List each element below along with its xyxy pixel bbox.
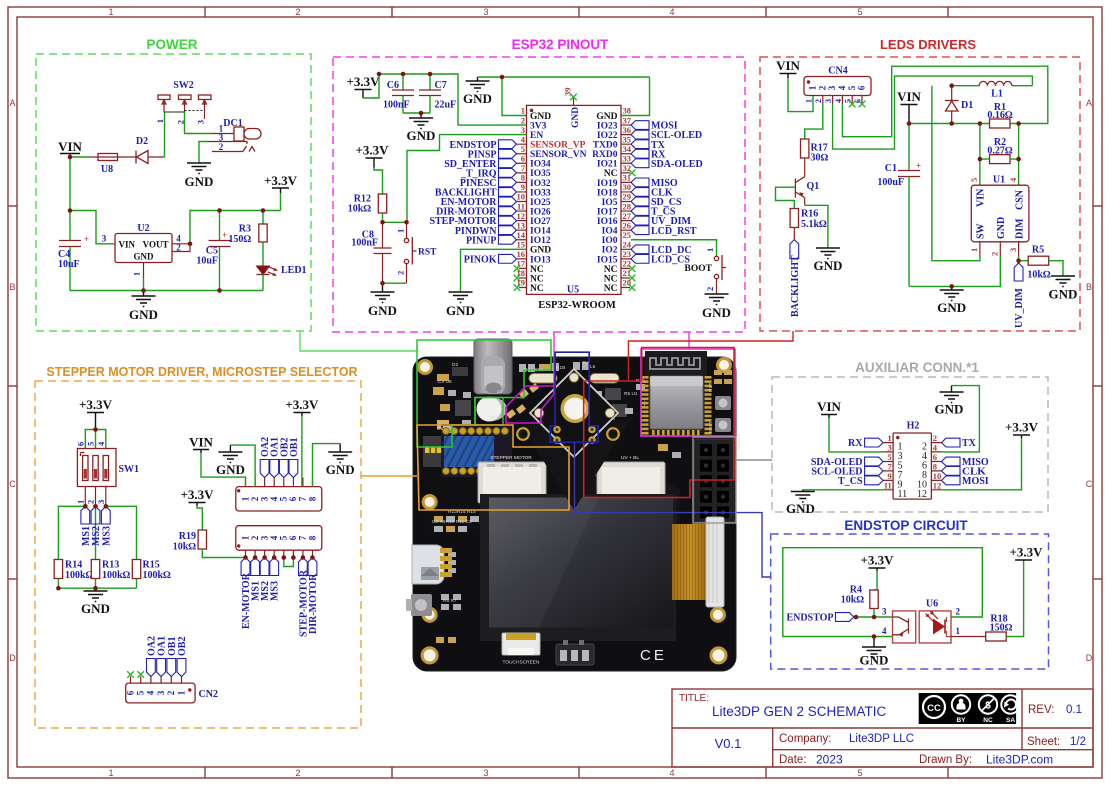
wire +3.3V to R4: [874, 571, 877, 590]
svg-text:2: 2: [250, 535, 260, 540]
wire VIN to header pin1: [201, 453, 246, 487]
svg-text:UV_DIM: UV_DIM: [1014, 287, 1025, 328]
svg-text:14: 14: [517, 230, 526, 240]
svg-text:NC: NC: [604, 274, 618, 284]
svg-text:IO22: IO22: [597, 131, 618, 141]
svg-text:R3: R3: [239, 224, 251, 235]
svg-text:DIM: DIM: [1014, 218, 1025, 239]
svg-text:U1: U1: [993, 175, 1005, 186]
svg-text:+: +: [916, 161, 921, 171]
svg-text:IO21: IO21: [597, 160, 618, 170]
svg-text:PINOK: PINOK: [464, 254, 497, 265]
svg-text:35: 35: [623, 134, 632, 144]
svg-text:1: 1: [804, 99, 813, 103]
junction dots ENDSTOP: [854, 615, 877, 639]
svg-text:NC: NC: [530, 274, 544, 284]
wire +3.3V to H2 pin12: [942, 438, 1022, 490]
callout outline stepper mount (navy): [550, 352, 770, 577]
svg-text:11: 11: [884, 480, 892, 490]
net label PINESC: [460, 178, 517, 189]
svg-text:5: 5: [86, 442, 96, 446]
svg-text:ESP32 PINOUT: ESP32 PINOUT: [512, 37, 610, 52]
wire VIN rail: [909, 123, 1019, 125]
wire D2 to SW2 pin1: [164, 112, 166, 157]
net label LCD_DC: [631, 245, 692, 256]
svg-text:1: 1: [240, 535, 250, 540]
svg-text:VIN: VIN: [189, 435, 213, 450]
net label RX (H2): [848, 438, 883, 449]
wire EN pin3 to reset circuit: [407, 135, 527, 223]
svg-text:IO35: IO35: [530, 169, 551, 179]
svg-text:SDA-OLED: SDA-OLED: [651, 159, 703, 170]
svg-text:+3.3V: +3.3V: [355, 143, 389, 158]
svg-text:D1: D1: [961, 100, 973, 111]
resistor R13: [91, 560, 130, 589]
power flag +3.3V (R4): [860, 553, 894, 572]
svg-text:C5: C5: [437, 426, 443, 432]
wire CN4 pin3 to LED return: [833, 76, 1033, 149]
svg-text:12: 12: [517, 211, 526, 221]
net label OA2 (CN2): [146, 636, 157, 677]
svg-text:25: 25: [623, 230, 632, 240]
svg-text:D2: D2: [452, 362, 458, 368]
svg-text:100nF: 100nF: [383, 100, 410, 111]
PCB SMD components top-left: [433, 362, 681, 643]
svg-text:3: 3: [483, 7, 488, 17]
svg-text:150Ω: 150Ω: [990, 623, 1013, 634]
svg-text:IO13: IO13: [530, 255, 551, 265]
svg-text:GND: GND: [530, 246, 551, 256]
svg-text:GND: GND: [571, 107, 581, 128]
svg-text:GND: GND: [446, 303, 475, 318]
svg-text:GND: GND: [81, 601, 110, 616]
push button BOOT: [685, 248, 726, 294]
wire U1 SW to inductor node: [932, 86, 980, 261]
net label RX: [631, 149, 666, 160]
svg-text:+3.3V: +3.3V: [79, 397, 113, 412]
svg-text:NC: NC: [983, 717, 993, 724]
wire ENDSTOP to U6 pin3: [854, 616, 893, 618]
svg-text:3: 3: [483, 768, 488, 778]
svg-text:24: 24: [623, 240, 632, 250]
svg-text:NC: NC: [604, 284, 618, 294]
svg-text:IO17: IO17: [597, 207, 618, 217]
svg-text:SA: SA: [1006, 717, 1015, 724]
PCB STEPPER MOTOR connector: [478, 455, 546, 505]
STEPPER MOTOR DRIVER section dashed box: [35, 381, 361, 728]
svg-text:37: 37: [623, 115, 632, 125]
svg-text:28: 28: [623, 201, 632, 211]
svg-text:BACKLIGHT: BACKLIGHT: [790, 255, 801, 317]
PCB stepper mount plate: [517, 369, 630, 510]
svg-text:100nF: 100nF: [351, 238, 378, 249]
svg-text:5: 5: [847, 85, 857, 90]
svg-text:SENSOR_VP: SENSOR_VP: [530, 141, 586, 151]
svg-text:GND: GND: [216, 462, 245, 477]
svg-text:IO23: IO23: [597, 121, 618, 131]
ground Q1: [813, 248, 842, 273]
wire +3.3V to rail: [363, 74, 379, 98]
svg-text:+3.3V: +3.3V: [1009, 545, 1043, 560]
net label BACKLIGHT: [790, 240, 801, 317]
PCB slots: [529, 374, 619, 384]
svg-text:3: 3: [196, 120, 206, 124]
svg-text:2: 2: [396, 271, 406, 275]
svg-text:2023: 2023: [816, 753, 843, 767]
svg-text:Lite3DP LLC: Lite3DP LLC: [849, 733, 914, 745]
power flag +3.3V (header pin7): [285, 397, 319, 416]
svg-text:BY: BY: [956, 717, 966, 724]
net label STEP-MOTOR (lower header): [298, 558, 309, 638]
creative commons badge: [919, 693, 1020, 724]
wire VIN to CN4 pin1: [788, 78, 813, 112]
svg-text:C: C: [1086, 479, 1093, 489]
svg-text:TITLE:: TITLE:: [679, 693, 709, 704]
svg-text:IO26: IO26: [530, 207, 551, 217]
svg-text:1: 1: [969, 248, 979, 252]
capacitor C6: [383, 74, 414, 113]
svg-text:CSN: CSN: [1014, 189, 1025, 210]
svg-text:6: 6: [76, 442, 86, 446]
svg-text:IO14: IO14: [530, 227, 551, 237]
PCB silkscreen labels: [432, 360, 741, 604]
AUXILIAR CONN section title: [855, 360, 979, 375]
svg-text:VIN: VIN: [58, 139, 82, 154]
svg-text:U6: U6: [926, 599, 938, 610]
svg-text:4: 4: [269, 535, 279, 540]
power flag +3.3V (R19): [180, 487, 214, 506]
net label LCD_RST: [631, 226, 697, 237]
no-connect marks U5: [514, 170, 636, 291]
capacitor C8: [351, 222, 391, 283]
power flag VIN (driver): [897, 89, 921, 124]
svg-text:MS3: MS3: [270, 581, 281, 601]
net label OA1 (CN2): [157, 636, 168, 677]
svg-text:RX: RX: [848, 438, 863, 449]
svg-text:10kΩ: 10kΩ: [841, 595, 865, 606]
svg-text:2: 2: [956, 607, 961, 617]
net label MOSI: [631, 121, 678, 132]
svg-text:3: 3: [259, 535, 269, 540]
net label DIR-MOTOR: [436, 207, 516, 218]
net label UV_DIM: [1014, 261, 1025, 328]
PCB barrel jack: [474, 339, 512, 394]
solder jumper SW2: [155, 80, 211, 124]
wire R18 to +3.3V: [1006, 560, 1023, 637]
AUXILIAR CONN section dashed box: [772, 377, 1048, 512]
svg-text:4: 4: [882, 626, 887, 636]
power flag VIN (CN4): [776, 58, 800, 78]
net label PINSP: [468, 149, 517, 160]
svg-text:23: 23: [623, 249, 632, 259]
svg-text:U5: U5: [567, 285, 579, 296]
net label SCL-OLED (H2): [811, 466, 883, 477]
svg-text:4: 4: [269, 496, 279, 501]
net label MS1 (SW1): [81, 506, 92, 546]
svg-text:ENDSTOP CIRCUIT: ENDSTOP CIRCUIT: [844, 518, 968, 533]
net label TX: [631, 140, 666, 151]
svg-text:3: 3: [259, 496, 269, 501]
net label OB1 (header): [289, 438, 300, 478]
net label SDA-OLED: [631, 159, 703, 170]
pin 39 GND no-connect: [563, 88, 582, 129]
callout line esp32 box to C6 C7 region (magenta): [506, 332, 554, 423]
net label MISO (H2): [942, 457, 989, 468]
callout outline esp32 module (magenta): [641, 332, 735, 436]
svg-text:VIN: VIN: [119, 240, 136, 250]
connector CN4: [804, 66, 871, 105]
net label MS1 (lower header): [251, 558, 262, 602]
svg-text:5: 5: [521, 144, 525, 154]
DIP switch SW1: [76, 441, 140, 506]
svg-text:10kΩ: 10kΩ: [1027, 270, 1051, 281]
svg-text:1: 1: [108, 768, 113, 778]
resistor R3: [228, 211, 267, 267]
svg-text:1: 1: [176, 690, 186, 695]
svg-text:V0.1: V0.1: [715, 736, 742, 751]
wire Q1 emitter to ground: [805, 205, 828, 248]
svg-text:VIN: VIN: [817, 399, 841, 414]
fuse U8: [89, 154, 127, 176]
title block TITLE text: [679, 693, 887, 719]
svg-text:AUXILIAR CONN.*1: AUXILIAR CONN.*1: [855, 360, 979, 375]
svg-text:RST: RST: [418, 248, 437, 258]
ground H2 bottom: [786, 490, 815, 516]
net label PINOK: [464, 254, 517, 265]
resistor R4: [841, 585, 878, 618]
net label MS2 (lower header): [260, 558, 271, 602]
push button RST: [396, 222, 438, 283]
ESP32 PINOUT section dashed box: [333, 57, 745, 332]
svg-text:3: 3: [521, 125, 525, 135]
svg-text:2: 2: [250, 496, 260, 501]
connector CN2: [125, 677, 218, 703]
svg-text:27: 27: [623, 211, 632, 221]
svg-text:10: 10: [517, 192, 526, 202]
POWER section title: [146, 37, 197, 52]
transistor Q1: [795, 177, 819, 206]
svg-text:STEPPER MOTOR DRIVER, MICROSTE: STEPPER MOTOR DRIVER, MICROSTEP SELECTOR: [46, 365, 357, 379]
svg-text:IO27: IO27: [530, 217, 551, 227]
svg-text:Sheet:: Sheet:: [1027, 736, 1060, 748]
svg-text:C6: C6: [489, 415, 495, 421]
net label TX (H2): [942, 438, 977, 449]
svg-text:RST: RST: [708, 382, 714, 392]
svg-text:UV + BL: UV + BL: [621, 455, 639, 461]
title block frame: [672, 689, 1093, 767]
svg-text:EN: EN: [530, 131, 543, 141]
svg-text:C: C: [9, 479, 16, 489]
wire U2 VOUT to 3.3V rail: [190, 211, 281, 244]
svg-text:IO2: IO2: [602, 246, 618, 256]
resistor R15: [132, 560, 171, 589]
resistor R14: [54, 560, 93, 589]
svg-text:5: 5: [857, 7, 862, 17]
svg-text:3: 3: [96, 500, 106, 504]
svg-text:6: 6: [288, 535, 298, 540]
net label ENDSTOP: [786, 613, 853, 624]
svg-text:L5: L5: [590, 364, 596, 370]
svg-text:3: 3: [827, 85, 837, 90]
net label BACKLIGHT: [435, 188, 517, 199]
resistor R1: [987, 102, 1013, 128]
junction dots POWER: [68, 155, 266, 293]
svg-text:7: 7: [298, 535, 308, 540]
wire H2 pin11 to ground: [803, 489, 883, 491]
net label MS2 (SW1): [91, 506, 102, 546]
svg-text:30: 30: [623, 182, 632, 192]
ground DC1: [185, 163, 214, 189]
PCB mounting holes: [419, 359, 731, 663]
svg-text:LEDS DRIVERS: LEDS DRIVERS: [880, 37, 976, 52]
svg-text:2: 2: [86, 500, 96, 504]
resistor R17: [801, 139, 829, 177]
svg-text:VIN: VIN: [776, 58, 800, 73]
svg-text:1: 1: [132, 272, 142, 276]
svg-text:H2: H2: [907, 421, 920, 432]
svg-text:CN2: CN2: [199, 689, 218, 700]
svg-text:NC: NC: [604, 265, 618, 275]
net label T_CS (H2): [838, 476, 883, 487]
power flag VIN (header): [189, 435, 213, 454]
capacitor C4: [58, 211, 89, 291]
svg-text:+3.3V: +3.3V: [860, 553, 894, 568]
net label CLK: [631, 188, 673, 199]
svg-text:OB2: OB2: [177, 637, 188, 656]
svg-text:R14: R14: [65, 560, 82, 571]
svg-text:CC: CC: [927, 703, 941, 714]
svg-text:+: +: [222, 230, 227, 240]
PCB heatsink: [441, 424, 512, 477]
svg-text:R16: R16: [801, 209, 818, 220]
net label EN-MOTOR: [441, 197, 517, 208]
svg-text:+3.3V: +3.3V: [1005, 420, 1039, 435]
svg-text:5: 5: [279, 496, 289, 501]
svg-text:1: 1: [521, 106, 525, 116]
wire RST to ground: [383, 282, 407, 284]
wire resistor ground rail: [58, 587, 136, 589]
ESP32 PINOUT section title: [512, 37, 610, 52]
svg-text:1: 1: [808, 85, 818, 90]
svg-text:NC: NC: [604, 169, 618, 179]
power flag +3.3V: [264, 173, 298, 211]
svg-text:1: 1: [155, 119, 165, 123]
wire Q1 base to R16: [776, 187, 796, 208]
title block company row: [779, 733, 1086, 748]
PCB ESP32 module: [645, 351, 707, 435]
ground BOOT: [702, 294, 731, 320]
capacitor C1: [877, 124, 921, 287]
wire +3.3V to R12: [374, 168, 383, 195]
svg-text:C6R9R2: C6R9R2: [736, 433, 741, 450]
svg-text:TOUCHSCREEN: TOUCHSCREEN: [503, 660, 540, 666]
ENDSTOP CIRCUIT section title: [844, 518, 968, 533]
capacitor C7: [419, 74, 456, 113]
svg-text:2: 2: [521, 115, 525, 125]
svg-text:1: 1: [396, 229, 406, 233]
wire SW1 pins to resistors: [58, 506, 136, 559]
svg-text:34: 34: [623, 144, 632, 154]
pin names U5: [530, 112, 618, 294]
power flag VIN (H2): [817, 399, 841, 418]
net label PINUP: [466, 235, 517, 246]
ENDSTOP CIRCUIT section dashed box: [771, 534, 1049, 669]
net label ENDSTOP: [449, 140, 516, 151]
svg-text:4: 4: [669, 7, 674, 17]
svg-text:NC: NC: [530, 284, 544, 294]
svg-text:R15: R15: [143, 560, 160, 571]
svg-text:ESP32-WROOM: ESP32-WROOM: [538, 300, 616, 311]
power flag VIN: [58, 139, 82, 157]
resistor R18: [986, 614, 1013, 642]
PCB microstep dip switch: [423, 436, 441, 467]
svg-text:T_CS: T_CS: [838, 476, 863, 487]
svg-text:1: 1: [76, 500, 86, 504]
wire VIN rail to U2 pin3: [70, 211, 115, 244]
PCB LCD panel: [480, 494, 676, 641]
wire header pin2 to ground: [230, 445, 255, 487]
svg-text:R6 R7: R6 R7: [443, 598, 457, 604]
svg-text:IO34: IO34: [530, 160, 551, 170]
ground H2 top: [935, 386, 964, 417]
svg-text:5: 5: [969, 178, 979, 182]
svg-text:2: 2: [166, 690, 176, 695]
svg-text:GND: GND: [786, 501, 815, 516]
svg-text:+3.3V: +3.3V: [346, 74, 380, 89]
net label MOSI (H2): [942, 476, 989, 487]
svg-text:29: 29: [623, 192, 632, 202]
svg-text:B: B: [1086, 282, 1092, 292]
svg-text:2: 2: [990, 252, 1000, 256]
svg-text:R1B: R1B: [556, 365, 565, 371]
PCB board: [413, 357, 736, 671]
ground SW1 resistors: [81, 588, 110, 616]
svg-text:GND: GND: [996, 217, 1007, 239]
wire power ground rail: [70, 290, 263, 292]
ground ENDSTOP: [860, 637, 889, 668]
svg-text:LCD_RST: LCD_RST: [651, 226, 697, 237]
svg-text:D2: D2: [136, 136, 148, 147]
svg-text:IO15: IO15: [597, 255, 618, 265]
net label _T_IRQ: [460, 168, 517, 179]
svg-text:DIR-MOTOR: DIR-MOTOR: [308, 573, 319, 634]
PCB auxiliary pin header: [694, 439, 736, 522]
svg-text:U8: U8: [101, 164, 113, 175]
svg-text:GND: GND: [860, 653, 889, 668]
title block REV: [1028, 704, 1082, 716]
PCB C6 C7 capacitors: [506, 383, 539, 419]
ground power rail: [129, 291, 158, 323]
svg-text:SW1: SW1: [119, 464, 140, 475]
wire sense network verticals: [980, 124, 1019, 186]
ground pin15: [446, 292, 475, 318]
wire POWER box to PCB callout: [300, 331, 417, 351]
svg-text:6: 6: [125, 690, 135, 695]
net label STEP-MOTOR: [429, 216, 516, 227]
ground R5: [1049, 276, 1078, 302]
PCB RST BOOT buttons: [714, 370, 732, 432]
svg-text:RXD0: RXD0: [592, 150, 618, 160]
wire H2 pin4 to ground: [942, 386, 980, 452]
svg-text:SENSOR_VN: SENSOR_VN: [530, 150, 587, 160]
wire IO0 pin25 to BOOT: [631, 240, 717, 257]
svg-text:7: 7: [298, 496, 308, 501]
wire VIN vertical to rail: [69, 157, 71, 211]
svg-text:100uF: 100uF: [877, 177, 904, 188]
svg-text:3: 3: [156, 690, 166, 695]
svg-text:26: 26: [623, 220, 632, 230]
wire header pin8 to ground: [313, 444, 341, 487]
